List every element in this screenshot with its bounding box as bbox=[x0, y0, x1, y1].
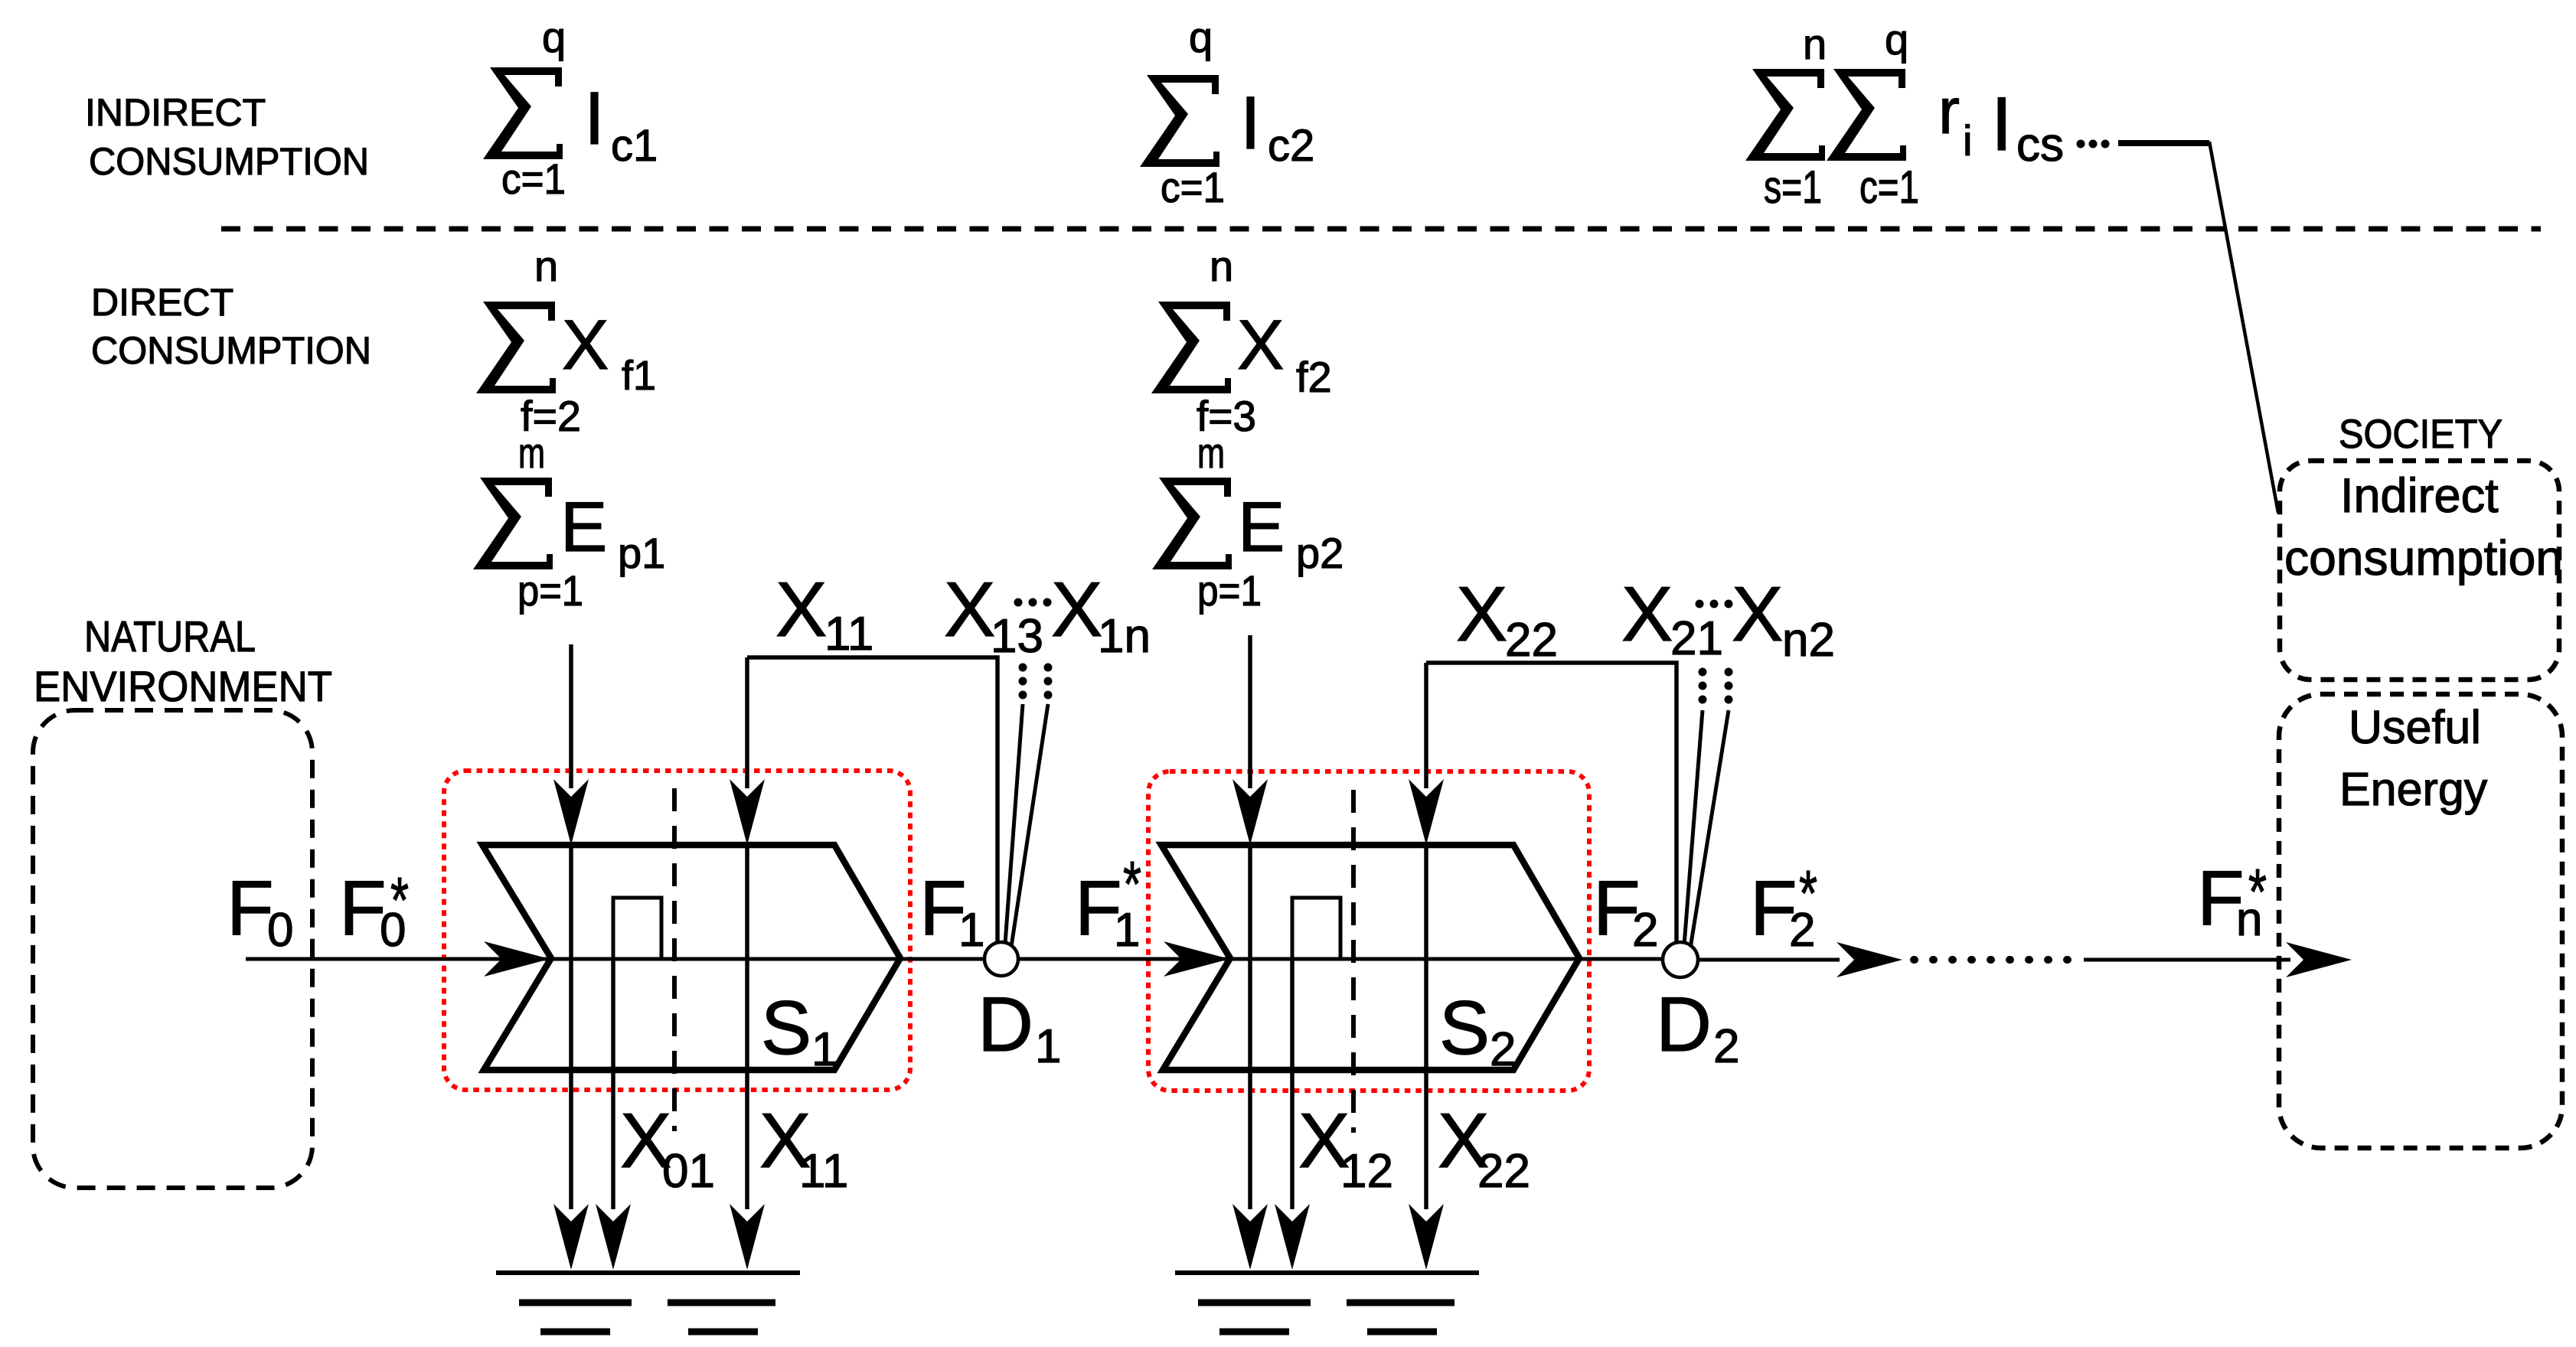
svg-text:22: 22 bbox=[1505, 614, 1558, 667]
svg-text:q: q bbox=[1885, 15, 1908, 64]
svg-text:2: 2 bbox=[1490, 1023, 1516, 1076]
svg-text:E: E bbox=[1238, 488, 1285, 566]
svg-text:E: E bbox=[560, 488, 607, 566]
svg-text:n: n bbox=[1210, 242, 1233, 290]
svg-text:11: 11 bbox=[824, 608, 873, 660]
svg-text:X: X bbox=[775, 567, 827, 653]
svg-text:*: * bbox=[390, 864, 409, 936]
svg-text:X: X bbox=[1732, 572, 1783, 657]
svg-text:1: 1 bbox=[1035, 1020, 1061, 1073]
svg-text:S: S bbox=[1439, 985, 1490, 1070]
svg-text:X: X bbox=[562, 306, 609, 384]
svg-text:r: r bbox=[1938, 75, 1960, 147]
svg-text:n: n bbox=[534, 242, 558, 290]
svg-text:c=1: c=1 bbox=[1161, 163, 1225, 211]
svg-text:c1: c1 bbox=[611, 121, 658, 171]
svg-text:p1: p1 bbox=[618, 529, 665, 577]
svg-text:q: q bbox=[542, 13, 566, 61]
svg-text:n: n bbox=[1803, 20, 1827, 68]
svg-text:12: 12 bbox=[1340, 1145, 1393, 1198]
svg-text:CONSUMPTION: CONSUMPTION bbox=[91, 329, 371, 372]
svg-text:p2: p2 bbox=[1296, 529, 1344, 577]
svg-text:0: 0 bbox=[267, 904, 293, 957]
svg-text:q: q bbox=[1189, 13, 1213, 61]
svg-text:Useful: Useful bbox=[2349, 701, 2481, 753]
svg-text:D: D bbox=[978, 982, 1033, 1068]
svg-text:2: 2 bbox=[1632, 904, 1658, 957]
svg-text:*: * bbox=[1799, 857, 1817, 929]
svg-text:consumption: consumption bbox=[2284, 530, 2563, 585]
svg-text:21: 21 bbox=[1670, 612, 1723, 665]
svg-text:X: X bbox=[1237, 306, 1284, 384]
svg-text:f1: f1 bbox=[622, 353, 656, 399]
svg-text:2: 2 bbox=[1713, 1020, 1739, 1073]
svg-text:I: I bbox=[1240, 81, 1261, 165]
svg-text:X: X bbox=[1051, 567, 1102, 653]
svg-text:1: 1 bbox=[958, 904, 984, 957]
svg-text:c2: c2 bbox=[1268, 121, 1314, 171]
svg-text:s=1: s=1 bbox=[1764, 161, 1822, 213]
svg-text:I: I bbox=[1991, 81, 2013, 166]
svg-text:Indirect: Indirect bbox=[2340, 469, 2499, 523]
svg-text:22: 22 bbox=[1477, 1145, 1530, 1198]
svg-text:cs: cs bbox=[2016, 119, 2064, 171]
svg-text:p=1: p=1 bbox=[517, 566, 583, 615]
svg-text:m: m bbox=[1197, 429, 1225, 477]
svg-text:1n: 1n bbox=[1098, 610, 1151, 663]
svg-text:c=1: c=1 bbox=[1859, 161, 1919, 213]
svg-text:NATURAL: NATURAL bbox=[84, 612, 256, 661]
svg-text:*: * bbox=[2248, 856, 2267, 928]
svg-text:01: 01 bbox=[662, 1145, 715, 1198]
svg-text:1: 1 bbox=[811, 1023, 837, 1076]
svg-text:S: S bbox=[761, 985, 811, 1070]
svg-text:INDIRECT: INDIRECT bbox=[85, 91, 266, 134]
svg-text:f2: f2 bbox=[1296, 353, 1332, 401]
svg-text:11: 11 bbox=[799, 1145, 848, 1198]
svg-text:I: I bbox=[584, 77, 605, 160]
svg-text:DIRECT: DIRECT bbox=[91, 281, 233, 324]
svg-text:CONSUMPTION: CONSUMPTION bbox=[89, 140, 369, 183]
svg-text:ENVIRONMENT: ENVIRONMENT bbox=[34, 662, 332, 710]
svg-text:13: 13 bbox=[991, 610, 1043, 663]
svg-text:X: X bbox=[1621, 572, 1673, 657]
svg-text:X: X bbox=[1456, 572, 1507, 657]
svg-text:*: * bbox=[1123, 848, 1141, 920]
svg-text:Energy: Energy bbox=[2339, 763, 2488, 815]
svg-text:SOCIETY: SOCIETY bbox=[2339, 412, 2503, 457]
svg-text:m: m bbox=[518, 429, 545, 477]
svg-text:X: X bbox=[944, 567, 995, 653]
svg-text:p=1: p=1 bbox=[1197, 566, 1262, 615]
svg-text:n2: n2 bbox=[1782, 614, 1835, 667]
svg-text:c=1: c=1 bbox=[501, 155, 566, 203]
svg-text:D: D bbox=[1656, 982, 1712, 1068]
svg-text:i: i bbox=[1963, 116, 1972, 165]
